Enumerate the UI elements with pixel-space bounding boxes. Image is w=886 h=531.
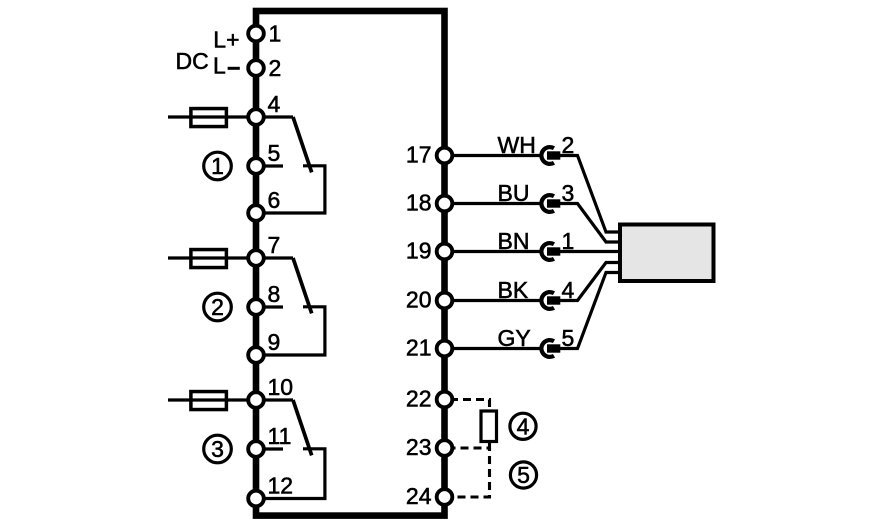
wire contact to terminal 12 <box>256 449 325 499</box>
wire stub terminal 8 <box>256 305 283 308</box>
wire fuse row to terminal 4 <box>168 115 252 118</box>
wire stub terminal 7 <box>256 256 293 259</box>
svg-text:BU: BU <box>498 180 530 206</box>
wire fuse row to terminal 7 <box>168 256 252 259</box>
svg-text:19: 19 <box>406 238 432 264</box>
svg-text:20: 20 <box>406 287 432 313</box>
svg-text:4: 4 <box>517 413 530 439</box>
connector socket pin 1 <box>541 243 560 260</box>
terminal 9 <box>248 329 280 363</box>
wire terminal 19 to connector pin 1 <box>448 250 541 253</box>
svg-text:24: 24 <box>406 483 432 509</box>
wire contact to terminal 6 <box>256 166 325 213</box>
terminal 20 <box>406 287 452 313</box>
terminal 6 <box>248 187 280 221</box>
svg-text:1: 1 <box>269 21 282 47</box>
svg-text:8: 8 <box>268 281 281 307</box>
svg-text:23: 23 <box>406 434 432 460</box>
terminal 2 <box>248 55 281 81</box>
wire terminal 18 to connector pin 3 <box>448 202 541 205</box>
contact blade S1 (terminal 4) <box>293 117 312 172</box>
resistor R (ref 4) <box>481 411 497 442</box>
terminal 19 <box>406 238 452 264</box>
fuse F3 <box>191 392 227 410</box>
circled ref 4 <box>510 413 536 439</box>
wire pin 2 to sensor <box>560 156 620 233</box>
svg-text:7: 7 <box>268 232 281 258</box>
wire stub terminal 4 <box>256 115 293 118</box>
wire terminal 21 to connector pin 5 <box>448 347 541 350</box>
terminal 10 <box>248 374 293 408</box>
label L- <box>213 53 240 79</box>
circled ref 1 <box>204 152 232 180</box>
terminal 17 <box>406 142 452 168</box>
svg-text:17: 17 <box>406 142 432 168</box>
svg-text:3: 3 <box>211 436 224 462</box>
svg-text:10: 10 <box>268 374 294 400</box>
wire pin 4 to sensor <box>560 263 620 301</box>
dashed wire terminal 22 to resistor <box>452 400 490 410</box>
connector socket pin 4 <box>541 292 560 309</box>
svg-text:11: 11 <box>268 423 292 449</box>
terminal 1 <box>248 21 281 47</box>
svg-text:WH: WH <box>498 132 536 158</box>
svg-text:L: L <box>213 53 226 79</box>
wire pin 3 to sensor <box>560 204 620 243</box>
svg-text:2: 2 <box>269 55 282 81</box>
contact blade S3 (terminal 10) <box>293 400 312 455</box>
svg-text:DC: DC <box>176 48 209 74</box>
terminal 4 <box>248 91 280 125</box>
svg-text:22: 22 <box>406 386 432 412</box>
wire contact to terminal 9 <box>256 307 325 355</box>
wire terminal 17 to connector pin 2 <box>448 154 541 157</box>
svg-text:5: 5 <box>268 140 281 166</box>
sensor box (encoder) <box>620 225 714 282</box>
wire stub terminal 5 <box>256 164 283 167</box>
svg-text:L+: L+ <box>213 26 239 52</box>
terminal 7 <box>248 232 280 266</box>
svg-text:GY: GY <box>498 325 531 351</box>
svg-text:2: 2 <box>211 294 224 320</box>
svg-text:BK: BK <box>498 277 529 303</box>
connector socket pin 3 <box>541 195 560 212</box>
device outline (terminal block body) <box>256 11 445 516</box>
circled ref 2 <box>204 293 232 321</box>
fuse F2 <box>191 250 227 268</box>
svg-text:5: 5 <box>517 462 530 488</box>
wire pin 5 to sensor <box>560 273 620 349</box>
dashed wire resistor to terminal 23 <box>452 443 490 448</box>
dashed wire terminal 23 to terminal 24 <box>452 448 490 497</box>
connector socket pin 2 <box>541 147 560 164</box>
terminal 23 <box>406 434 452 460</box>
terminal 5 <box>248 140 280 174</box>
wire pin 1 to sensor <box>560 250 620 253</box>
terminal 22 <box>406 386 452 412</box>
terminal 21 <box>406 335 452 361</box>
circled ref 3 <box>204 435 232 463</box>
terminal 24 <box>406 483 452 509</box>
fuse F1 <box>191 109 227 127</box>
svg-text:12: 12 <box>268 473 294 499</box>
svg-text:21: 21 <box>406 335 432 361</box>
wire terminal 20 to connector pin 4 <box>448 299 541 302</box>
wire stub terminal 11 <box>256 447 283 450</box>
wire fuse row to terminal 10 <box>168 398 252 401</box>
circled ref 5 <box>510 462 536 488</box>
connector socket pin 5 <box>541 340 560 357</box>
terminal 12 <box>248 473 293 507</box>
terminal 18 <box>406 190 452 216</box>
terminal 11 <box>248 423 291 457</box>
svg-text:18: 18 <box>406 190 432 216</box>
svg-text:6: 6 <box>268 187 281 213</box>
svg-text:BN: BN <box>498 228 530 254</box>
wire stub terminal 10 <box>256 398 293 401</box>
svg-text:4: 4 <box>268 91 281 117</box>
terminal 8 <box>248 281 280 315</box>
svg-text:9: 9 <box>268 329 281 355</box>
contact blade S2 (terminal 7) <box>293 258 312 313</box>
svg-text:1: 1 <box>211 153 224 179</box>
